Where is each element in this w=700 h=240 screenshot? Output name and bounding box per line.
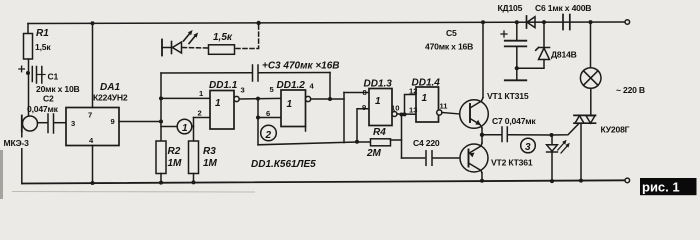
gate DD1.4 [416, 87, 442, 122]
diode VD LED optocoupler emitter [547, 133, 570, 183]
svg-text:1: 1 [182, 123, 188, 134]
svg-text:1: 1 [422, 93, 428, 104]
svg-text:12: 12 [409, 87, 417, 96]
wire C3 feedback drop [328, 73, 332, 102]
svg-text:3: 3 [525, 142, 531, 153]
wire DD1.3 pin10 to DD1.4 pin13 [397, 113, 416, 115]
wire DD1.4 pin11 to VT1 base [442, 113, 460, 115]
wire top supply rail [28, 22, 625, 24]
wire R4/C4 vertical [400, 113, 404, 159]
gate DD1.1 [210, 91, 239, 130]
wire dashed link [183, 47, 209, 50]
svg-text:1,5к: 1,5к [35, 42, 51, 52]
svg-text:DD1.К561ЛЕ5: DD1.К561ЛЕ5 [251, 159, 316, 170]
svg-text:1М: 1М [203, 158, 218, 169]
capacitor C5 [501, 20, 526, 80]
svg-text:DA1: DA1 [100, 82, 120, 93]
svg-text:1: 1 [375, 96, 381, 107]
capacitor C7 [482, 127, 552, 142]
svg-text:R1: R1 [36, 28, 49, 39]
wire VT2 collector to common [480, 173, 484, 183]
svg-text:2М: 2М [366, 148, 382, 159]
wire C5 to zener anode [517, 60, 544, 69]
capacitor C6 [563, 15, 570, 30]
svg-text:8: 8 [363, 88, 367, 97]
triac VS KU208G [574, 88, 596, 182]
transistor Q VT2 KT361 [460, 143, 488, 173]
microphone BM1 MKE-3 [22, 116, 38, 132]
resistor R1 [24, 24, 33, 117]
pin labels DD1 [198, 82, 449, 119]
terminal 220V bottom [625, 178, 630, 183]
wire DD1.1 pin3 to DD1.2 pin5 [239, 97, 281, 101]
svg-text:2: 2 [198, 109, 202, 118]
transistor Q VT1 KT315 [460, 98, 489, 129]
gate DD1.3 [369, 89, 397, 126]
svg-text:3: 3 [241, 86, 245, 95]
svg-text:1: 1 [215, 98, 221, 109]
wire VT1 collector to rail [481, 20, 485, 97]
svg-text:КУ208Г: КУ208Г [601, 125, 630, 135]
svg-text:С4 220: С4 220 [413, 138, 440, 148]
svg-text:13: 13 [409, 106, 417, 115]
value label R2 [168, 146, 183, 169]
svg-text:С2: С2 [43, 94, 54, 104]
wire mic ground leg [21, 132, 23, 184]
pin labels DA1 [71, 111, 115, 145]
wire DD1.3 pin9 input [357, 109, 369, 142]
svg-text:10: 10 [391, 104, 399, 113]
svg-text:C1: C1 [48, 72, 59, 82]
wire bottom common rail [22, 180, 625, 183]
svg-text:1,5к: 1,5к [213, 32, 233, 43]
svg-text:20мк x 10В: 20мк x 10В [36, 84, 80, 94]
wire DD1.2 pin4 to DD1.3 pin8 [311, 93, 369, 100]
diode VD KD105 [527, 16, 536, 28]
svg-text:Д814В: Д814В [551, 50, 577, 60]
terminal 220V right [625, 20, 630, 25]
wire emitters junction [480, 128, 484, 143]
capacitor C4 [402, 151, 461, 166]
resistor R4 [371, 139, 402, 146]
value label C1 [27, 72, 80, 115]
svg-text:7: 7 [88, 111, 92, 120]
svg-text:DD1.2: DD1.2 [277, 80, 306, 91]
value label R1 [35, 28, 51, 52]
wire DD1.2 pin6 tie [256, 99, 281, 120]
wire triac gate [552, 123, 579, 135]
wire DD1.4 pin12 tie [403, 95, 417, 117]
wire pin8 drop [343, 93, 345, 143]
svg-text:С6 1мк х 400В: С6 1мк х 400В [535, 3, 591, 13]
zener VD D814V [536, 20, 550, 59]
wire node2 to R4 [258, 140, 371, 145]
svg-text:470мк x 16В: 470мк x 16В [425, 42, 473, 52]
svg-text:DD1.3: DD1.3 [364, 79, 393, 90]
svg-text:С7 0,047мк: С7 0,047мк [492, 116, 536, 126]
svg-text:VT1 КТ315: VT1 КТ315 [487, 91, 529, 101]
wire DA1 pin9 output [119, 120, 163, 124]
wire dashed link to rail [236, 21, 261, 49]
svg-text:С5: С5 [446, 28, 457, 38]
capacitor C1 [19, 66, 45, 83]
svg-text:R2: R2 [168, 146, 181, 157]
value label DA1 [93, 82, 128, 103]
node 2 [258, 118, 276, 145]
svg-text:3: 3 [71, 119, 75, 128]
svg-text:0,047мк: 0,047мк [27, 104, 59, 114]
resistor R2 [156, 141, 166, 185]
value label R4 [366, 127, 386, 159]
capacitor C2 [38, 114, 67, 133]
photodiode optocoupler receiver [162, 30, 198, 56]
svg-text:К224УН2: К224УН2 [93, 93, 128, 103]
value label MKE-3 [2, 138, 33, 149]
svg-text:11: 11 [440, 102, 449, 111]
gate symbols 1 [215, 93, 428, 110]
svg-text:9: 9 [111, 117, 115, 126]
svg-text:МКЭ-3: МКЭ-3 [4, 138, 30, 148]
value label C5 [425, 28, 473, 52]
value label R3 [203, 146, 218, 169]
svg-text:DD1.1: DD1.1 [209, 80, 238, 91]
svg-text:6: 6 [266, 109, 270, 118]
svg-text:1М: 1М [168, 158, 183, 169]
wire DA1 pin4 to common [91, 146, 95, 186]
wire DA1 pin7 to rail [91, 21, 95, 107]
gate DD1.2 [281, 90, 311, 131]
svg-text:9: 9 [362, 103, 366, 112]
resistor R 1.5k optional [209, 45, 235, 55]
svg-text:~ 220 В: ~ 220 В [616, 85, 645, 95]
wire DD1.1 pin1 input [161, 97, 210, 99]
figure caption [640, 178, 697, 195]
svg-text:1: 1 [287, 99, 293, 110]
node 1 [161, 119, 194, 134]
svg-text:2: 2 [265, 130, 272, 141]
resistor R3 [189, 118, 199, 185]
svg-text:+С3 470мк ×16В: +С3 470мк ×16В [262, 61, 340, 72]
svg-text:R3: R3 [203, 146, 216, 157]
svg-text:R4: R4 [373, 127, 386, 138]
svg-text:рис. 1: рис. 1 [642, 180, 680, 195]
wire left vertical bus [159, 73, 163, 141]
capacitor C3 [161, 65, 330, 81]
op-amp U DA1 K224UN2 [66, 108, 119, 146]
wire DD1.1 pin2 input [194, 117, 211, 119]
svg-text:VT2 КТ361: VT2 КТ361 [491, 158, 533, 168]
svg-text:КД105: КД105 [498, 3, 523, 13]
lamp HL 220V [580, 20, 601, 88]
node 3 [521, 138, 536, 153]
